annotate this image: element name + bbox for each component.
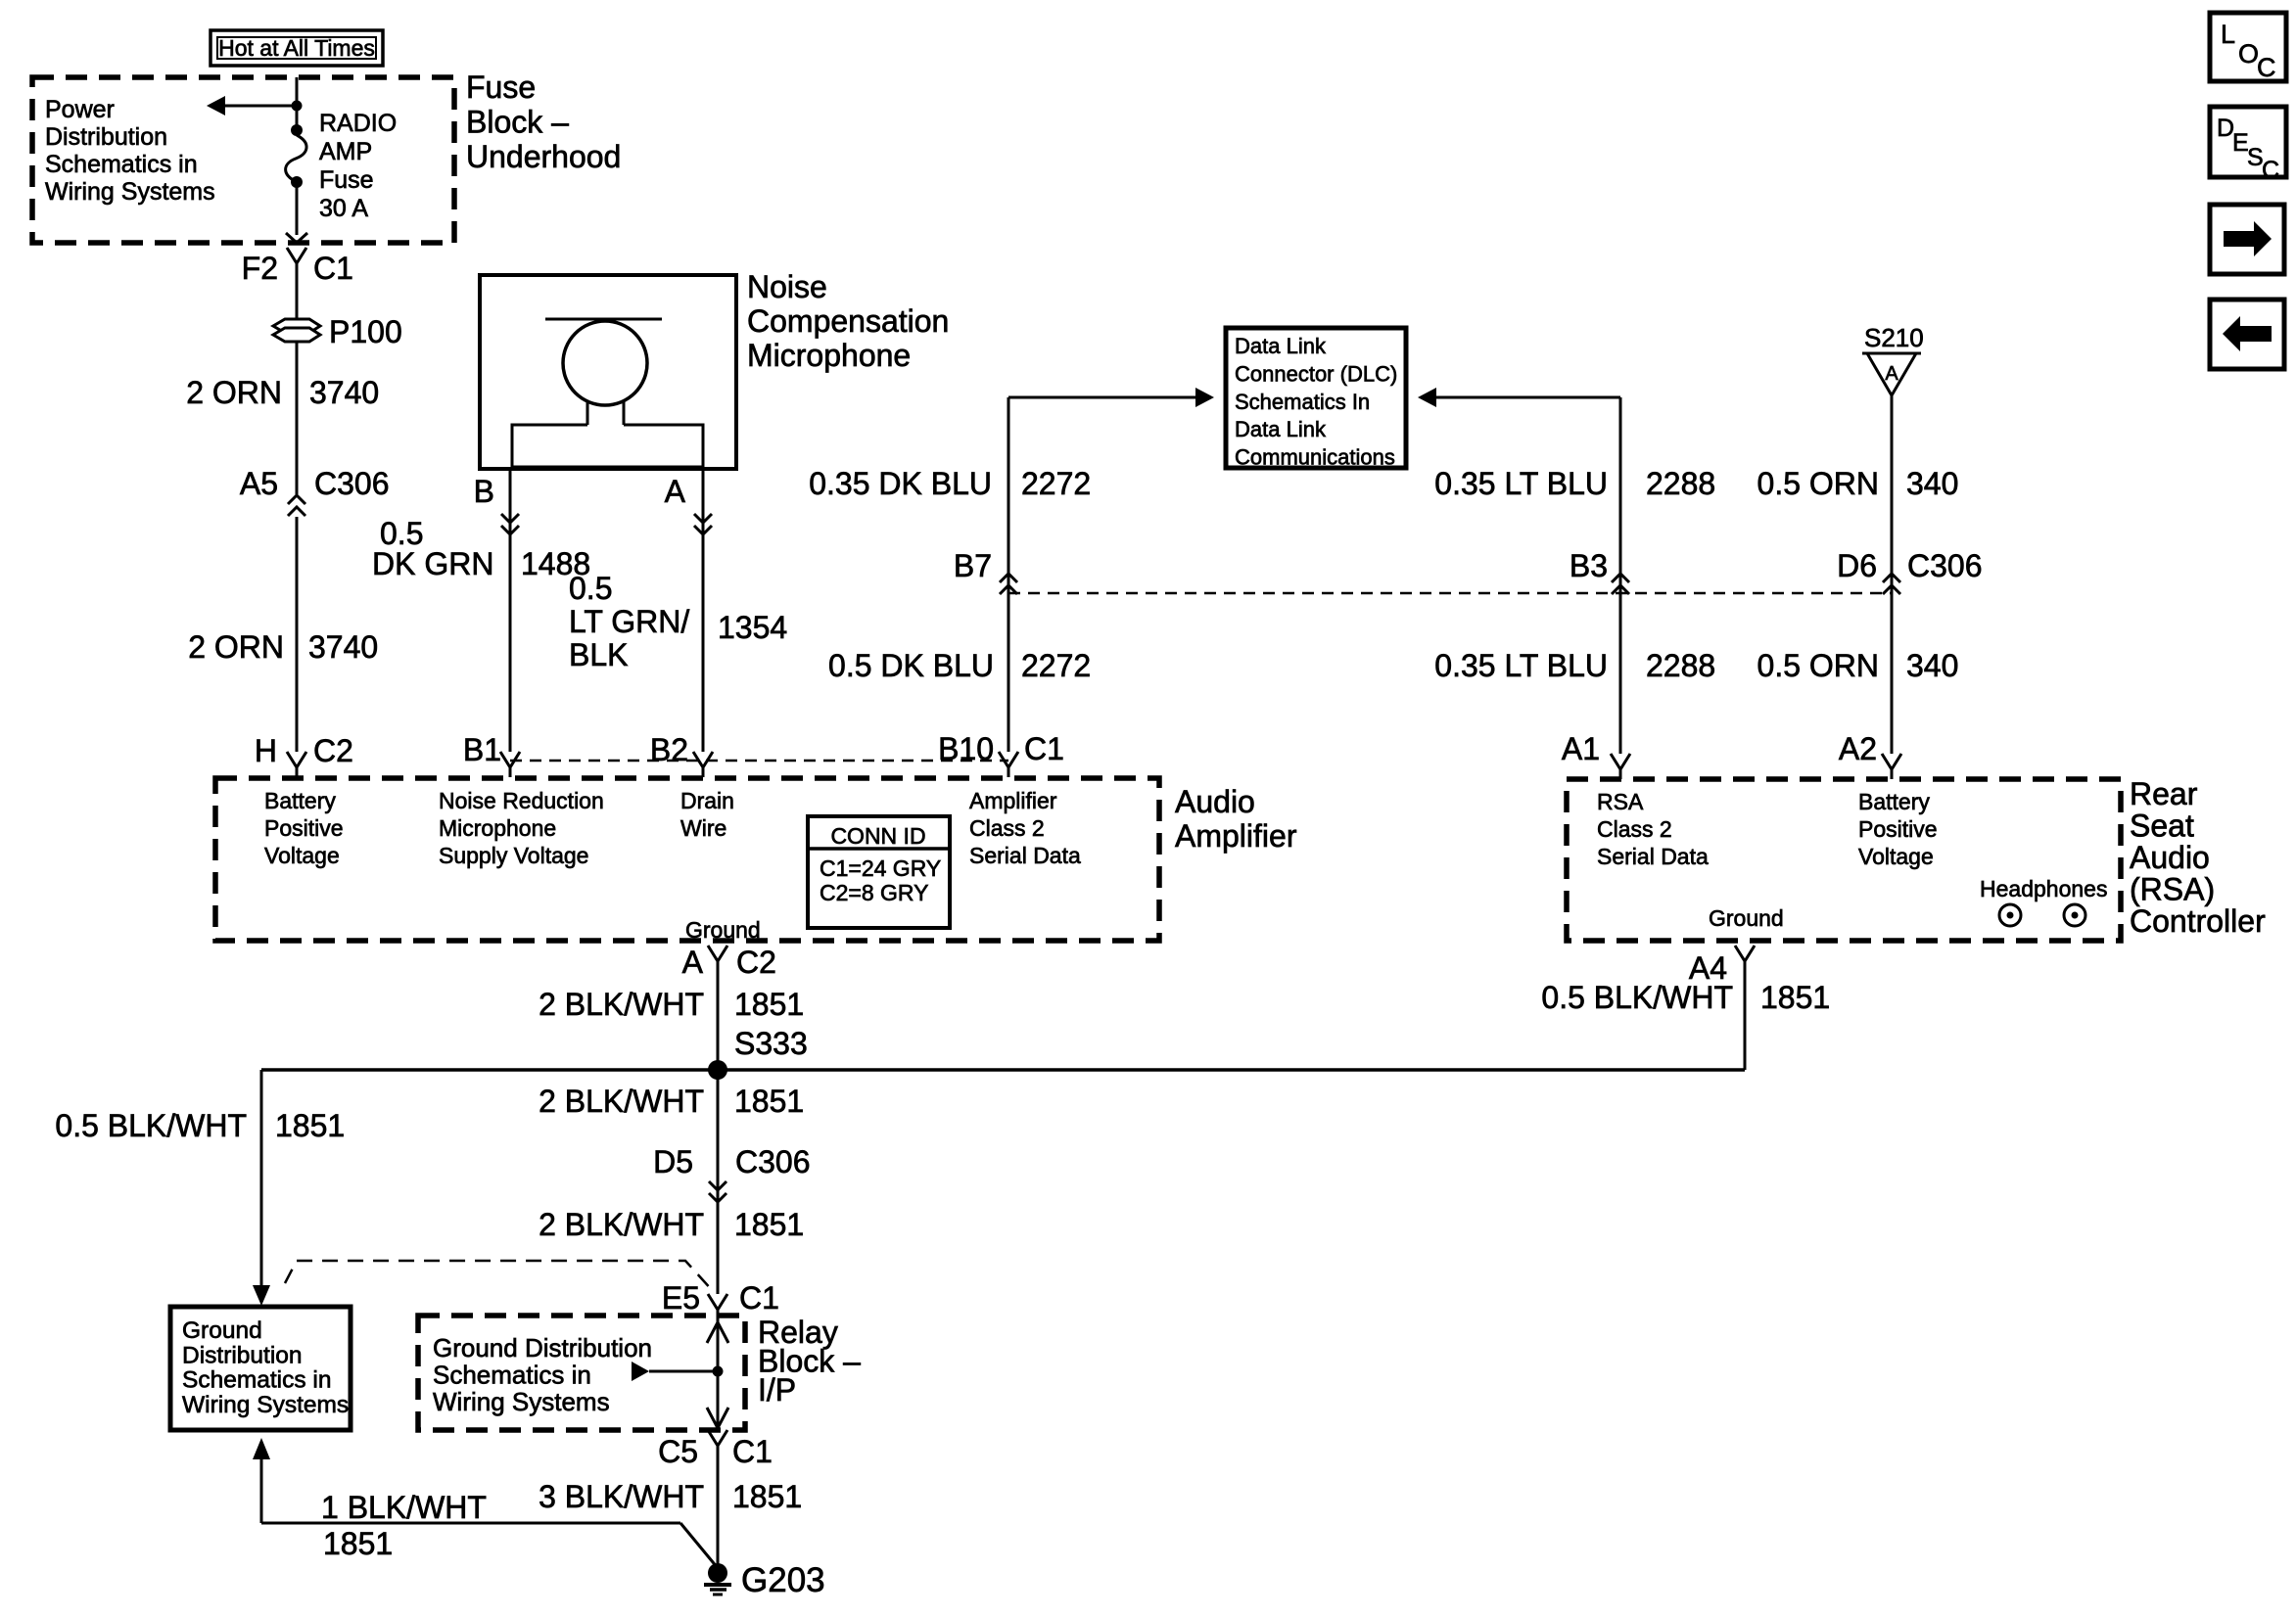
svg-text:Ground: Ground: [685, 917, 761, 943]
svg-text:2272: 2272: [1021, 466, 1091, 501]
svg-text:A5: A5: [240, 466, 278, 501]
svg-text:0.5 ORN: 0.5 ORN: [1757, 466, 1879, 501]
svg-text:B10: B10: [938, 731, 994, 766]
svg-text:1851: 1851: [734, 1207, 804, 1242]
svg-text:Ground: Ground: [1709, 905, 1784, 931]
svg-text:Wiring Systems: Wiring Systems: [433, 1387, 610, 1416]
svg-text:C: C: [2257, 53, 2276, 82]
svg-text:A: A: [682, 945, 704, 980]
svg-text:340: 340: [1906, 648, 1958, 683]
svg-text:Distribution: Distribution: [45, 123, 167, 151]
svg-text:Fuse: Fuse: [466, 69, 536, 105]
svg-text:Drain: Drain: [680, 788, 734, 813]
svg-text:O: O: [2238, 39, 2259, 69]
svg-text:0.5 BLK/WHT: 0.5 BLK/WHT: [1541, 980, 1733, 1015]
svg-text:L: L: [2221, 20, 2235, 49]
svg-text:C1: C1: [1024, 731, 1064, 766]
svg-text:Underhood: Underhood: [466, 139, 621, 174]
svg-text:3 BLK/WHT: 3 BLK/WHT: [539, 1479, 704, 1514]
svg-text:3740: 3740: [309, 375, 379, 410]
svg-text:C2=8 GRY: C2=8 GRY: [820, 880, 928, 905]
svg-text:Audio: Audio: [1175, 784, 1255, 819]
svg-text:Rear: Rear: [2130, 776, 2198, 811]
svg-text:Schematics in: Schematics in: [433, 1361, 591, 1390]
svg-text:Wire: Wire: [680, 815, 726, 841]
svg-text:Noise: Noise: [747, 269, 827, 304]
svg-text:1851: 1851: [732, 1479, 802, 1514]
svg-text:B2: B2: [650, 732, 688, 767]
svg-text:Block –: Block –: [466, 105, 569, 140]
svg-text:0.35 LT BLU: 0.35 LT BLU: [1434, 648, 1608, 683]
svg-text:Power: Power: [45, 96, 115, 123]
svg-text:Amplifier: Amplifier: [1175, 818, 1297, 854]
svg-text:Controller: Controller: [2130, 903, 2266, 939]
svg-text:Data Link: Data Link: [1235, 417, 1327, 441]
svg-text:0.5 BLK/WHT: 0.5 BLK/WHT: [55, 1108, 247, 1143]
svg-text:I/P: I/P: [758, 1372, 796, 1408]
svg-text:C1: C1: [732, 1434, 773, 1469]
svg-text:BLK: BLK: [569, 637, 628, 672]
svg-text:2 BLK/WHT: 2 BLK/WHT: [539, 1084, 704, 1119]
svg-text:Ground Distribution: Ground Distribution: [433, 1333, 652, 1363]
svg-text:2 ORN: 2 ORN: [186, 375, 282, 410]
svg-text:P100: P100: [329, 314, 402, 349]
svg-text:1354: 1354: [718, 610, 787, 645]
svg-text:A: A: [665, 474, 686, 509]
svg-text:Schematics in: Schematics in: [45, 151, 198, 178]
svg-text:2 BLK/WHT: 2 BLK/WHT: [539, 1207, 704, 1242]
svg-text:1851: 1851: [323, 1526, 393, 1561]
svg-text:0.5: 0.5: [569, 571, 612, 606]
svg-text:Positive: Positive: [264, 815, 344, 841]
svg-text:Voltage: Voltage: [264, 843, 340, 868]
svg-text:Schematics In: Schematics In: [1235, 390, 1370, 414]
svg-text:C1=24 GRY: C1=24 GRY: [820, 855, 941, 881]
svg-text:0.35 DK BLU: 0.35 DK BLU: [809, 466, 992, 501]
svg-text:C: C: [2262, 157, 2279, 184]
svg-text:Headphones: Headphones: [1980, 876, 2107, 901]
svg-text:CONN ID: CONN ID: [830, 823, 925, 849]
svg-text:2288: 2288: [1646, 466, 1715, 501]
svg-text:C5: C5: [658, 1434, 698, 1469]
svg-text:Data Link: Data Link: [1235, 334, 1327, 358]
svg-text:Microphone: Microphone: [439, 815, 556, 841]
svg-text:C306: C306: [735, 1144, 811, 1179]
svg-text:Audio: Audio: [2130, 840, 2210, 875]
svg-text:Distribution: Distribution: [182, 1342, 303, 1368]
svg-text:1851: 1851: [734, 1084, 804, 1119]
svg-text:Noise Reduction: Noise Reduction: [439, 788, 604, 813]
svg-text:Battery: Battery: [1858, 789, 1930, 814]
svg-text:A: A: [1885, 363, 1898, 385]
svg-text:2 ORN: 2 ORN: [188, 629, 284, 665]
svg-text:Seat: Seat: [2130, 808, 2194, 844]
svg-text:E5: E5: [662, 1280, 700, 1316]
svg-text:S333: S333: [734, 1026, 808, 1061]
svg-text:0.5 ORN: 0.5 ORN: [1757, 648, 1879, 683]
svg-text:Microphone: Microphone: [747, 338, 911, 373]
svg-text:B1: B1: [463, 732, 501, 767]
svg-text:Schematics in: Schematics in: [182, 1367, 332, 1394]
svg-text:LT GRN/: LT GRN/: [569, 604, 689, 639]
svg-text:A2: A2: [1839, 731, 1877, 766]
svg-text:RADIO: RADIO: [319, 110, 397, 137]
svg-text:1851: 1851: [275, 1108, 345, 1143]
svg-text:Battery: Battery: [264, 788, 336, 813]
svg-text:D5: D5: [653, 1144, 693, 1179]
svg-text:Positive: Positive: [1858, 816, 1938, 842]
svg-text:B: B: [474, 474, 494, 509]
svg-text:RSA: RSA: [1597, 789, 1644, 814]
svg-text:Communications: Communications: [1235, 445, 1395, 470]
svg-text:C306: C306: [314, 466, 390, 501]
svg-text:2288: 2288: [1646, 648, 1715, 683]
svg-text:F2: F2: [242, 251, 278, 286]
svg-text:H: H: [255, 733, 277, 768]
svg-text:Class 2: Class 2: [969, 815, 1045, 841]
svg-text:Voltage: Voltage: [1858, 844, 1934, 869]
svg-text:(RSA): (RSA): [2130, 872, 2215, 907]
svg-text:G203: G203: [741, 1561, 825, 1599]
svg-text:Hot at All Times: Hot at All Times: [218, 35, 375, 61]
svg-text:B3: B3: [1570, 548, 1608, 583]
svg-text:A1: A1: [1562, 731, 1600, 766]
svg-text:340: 340: [1906, 466, 1958, 501]
svg-text:1851: 1851: [734, 987, 804, 1022]
svg-text:C2: C2: [736, 945, 776, 980]
svg-text:C1: C1: [739, 1280, 779, 1316]
svg-text:Compensation: Compensation: [747, 303, 949, 339]
svg-text:Fuse: Fuse: [319, 166, 374, 194]
svg-text:Serial Data: Serial Data: [1597, 844, 1709, 869]
svg-text:D6: D6: [1837, 548, 1877, 583]
svg-text:30 A: 30 A: [319, 195, 368, 222]
svg-text:0.5 DK BLU: 0.5 DK BLU: [828, 648, 994, 683]
svg-text:AMP: AMP: [319, 138, 372, 165]
svg-text:Amplifier: Amplifier: [969, 788, 1057, 813]
svg-text:Connector (DLC): Connector (DLC): [1235, 361, 1397, 386]
svg-text:Supply Voltage: Supply Voltage: [439, 843, 588, 868]
svg-text:C306: C306: [1907, 548, 1983, 583]
svg-text:C1: C1: [313, 251, 353, 286]
svg-text:Wiring Systems: Wiring Systems: [45, 178, 215, 206]
svg-text:Ground: Ground: [182, 1317, 262, 1344]
svg-text:Serial Data: Serial Data: [969, 843, 1081, 868]
svg-text:B7: B7: [954, 548, 992, 583]
svg-text:3740: 3740: [308, 629, 378, 665]
svg-text:1 BLK/WHT: 1 BLK/WHT: [321, 1490, 487, 1525]
svg-text:2 BLK/WHT: 2 BLK/WHT: [539, 987, 704, 1022]
svg-text:2272: 2272: [1021, 648, 1091, 683]
svg-text:Wiring Systems: Wiring Systems: [182, 1392, 349, 1418]
svg-text:Class 2: Class 2: [1597, 816, 1672, 842]
svg-text:1851: 1851: [1760, 980, 1830, 1015]
svg-text:DK GRN: DK GRN: [372, 546, 493, 581]
svg-text:C2: C2: [313, 733, 353, 768]
svg-text:S210: S210: [1864, 323, 1924, 352]
svg-text:0.35 LT BLU: 0.35 LT BLU: [1434, 466, 1608, 501]
